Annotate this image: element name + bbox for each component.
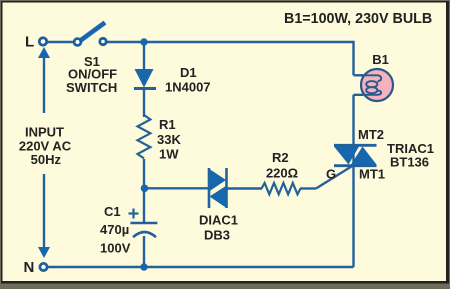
svg-text:R2: R2 bbox=[272, 150, 289, 165]
svg-text:C1: C1 bbox=[104, 204, 121, 219]
svg-text:N: N bbox=[24, 259, 35, 276]
svg-text:MT1: MT1 bbox=[359, 167, 385, 182]
svg-text:470µ: 470µ bbox=[100, 222, 129, 237]
svg-text:B1=100W, 230V BULB: B1=100W, 230V BULB bbox=[284, 11, 432, 27]
svg-text:50Hz: 50Hz bbox=[31, 152, 62, 167]
svg-text:L: L bbox=[25, 34, 34, 51]
svg-text:MT2: MT2 bbox=[358, 127, 384, 142]
svg-text:G: G bbox=[326, 167, 336, 182]
svg-text:INPUT: INPUT bbox=[25, 125, 64, 140]
svg-text:220Ω: 220Ω bbox=[266, 166, 298, 181]
svg-text:D1: D1 bbox=[180, 65, 197, 80]
svg-text:33K: 33K bbox=[157, 132, 181, 147]
svg-text:100V: 100V bbox=[100, 241, 131, 256]
svg-text:1N4007: 1N4007 bbox=[165, 80, 211, 95]
svg-text:DIAC1: DIAC1 bbox=[199, 213, 238, 228]
svg-text:R1: R1 bbox=[159, 117, 176, 132]
svg-text:B1: B1 bbox=[372, 52, 389, 67]
svg-text:SWITCH: SWITCH bbox=[66, 80, 117, 95]
svg-text:BT136: BT136 bbox=[390, 155, 429, 170]
svg-text:DB3: DB3 bbox=[204, 228, 230, 243]
svg-text:1W: 1W bbox=[159, 147, 179, 162]
